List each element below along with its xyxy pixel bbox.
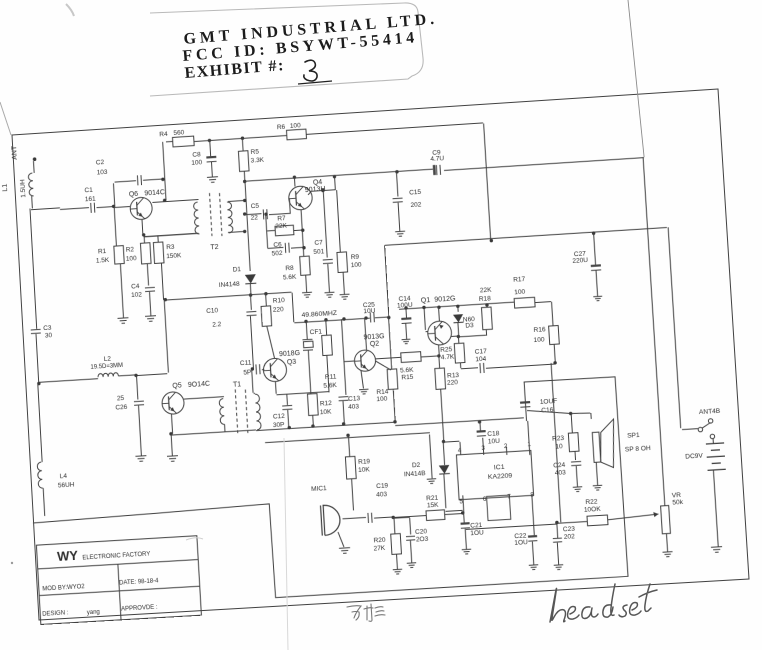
wire xyxy=(143,235,145,243)
capacitor C6 xyxy=(285,243,289,253)
svg-text:R4: R4 xyxy=(159,131,168,139)
wire Q5 emitter xyxy=(171,414,172,434)
svg-text:Q1: Q1 xyxy=(421,297,431,305)
wire xyxy=(31,196,34,208)
wire xyxy=(308,351,311,394)
inductor L4 xyxy=(37,462,43,488)
sticker text FCC ID xyxy=(182,29,419,65)
label ANT xyxy=(11,145,19,160)
svg-text:D1: D1 xyxy=(233,266,242,274)
label R1 1.5K xyxy=(95,248,110,265)
schematic outer border frame xyxy=(12,89,749,620)
svg-text:L4: L4 xyxy=(60,473,68,481)
wire top rail xyxy=(194,136,287,142)
wire xyxy=(312,415,315,426)
svg-text:403: 403 xyxy=(348,403,360,411)
ground xyxy=(402,339,411,344)
label 1.5UH xyxy=(19,179,27,198)
wire xyxy=(267,246,303,250)
resistor R25 xyxy=(454,343,465,363)
label R2 100 xyxy=(125,246,137,263)
capacitor C7 xyxy=(323,259,333,263)
title block text APPROVDE xyxy=(121,604,158,612)
wire xyxy=(60,208,89,210)
wire pin2 xyxy=(505,446,508,454)
wire xyxy=(141,219,144,235)
wire xyxy=(306,321,307,339)
wire xyxy=(249,284,252,295)
label C11 5P xyxy=(240,360,253,377)
label R9 100 xyxy=(350,253,362,269)
svg-text:C10: C10 xyxy=(206,307,219,315)
wire xyxy=(486,364,555,368)
label C2 103 xyxy=(96,159,108,177)
resistor R22 xyxy=(587,515,608,526)
handwritten exhibit number 3 xyxy=(298,60,332,84)
svg-text:C16: C16 xyxy=(541,407,554,415)
capacitor C26 xyxy=(134,401,144,405)
wire xyxy=(438,356,441,368)
label SP1 SP 8 OH xyxy=(624,431,651,454)
label L4 56UH xyxy=(57,473,75,490)
wire xyxy=(114,206,116,246)
capacitor C13 xyxy=(338,397,348,401)
node junction xyxy=(243,180,247,184)
wire Q4 collector xyxy=(308,189,336,194)
wire xyxy=(461,368,478,369)
node junction xyxy=(321,189,325,193)
label C24 403 xyxy=(553,462,566,477)
wire xyxy=(352,479,354,511)
svg-text:C5: C5 xyxy=(251,202,260,210)
speaker SP1 xyxy=(592,419,617,469)
wire xyxy=(384,245,392,369)
wire xyxy=(334,177,337,191)
crystal CF1 xyxy=(302,339,313,350)
node junction xyxy=(404,301,489,312)
wire L2 rail xyxy=(39,373,168,382)
svg-text:10U: 10U xyxy=(363,308,376,316)
wire xyxy=(241,138,244,151)
node junction xyxy=(592,231,596,235)
svg-text:C7: C7 xyxy=(314,239,323,247)
transistor Q2 9013G xyxy=(354,349,376,371)
label R10 220 xyxy=(272,297,286,314)
resistor R21 xyxy=(426,510,445,521)
svg-text:22K: 22K xyxy=(480,287,493,295)
wire Q1 rail xyxy=(399,302,514,309)
resistor R7 xyxy=(275,225,294,236)
wire xyxy=(343,272,344,294)
capacitor C21 xyxy=(460,522,469,528)
wire xyxy=(171,434,172,456)
label R7 22K xyxy=(275,215,288,231)
svg-text:WY: WY xyxy=(57,548,79,564)
svg-text:30: 30 xyxy=(45,332,53,340)
wire to speaker xyxy=(527,407,591,423)
wire xyxy=(712,439,714,444)
svg-text:30P: 30P xyxy=(273,421,285,429)
svg-text:ANT: ANT xyxy=(11,145,19,160)
ground xyxy=(593,485,603,490)
wire Q2 emitter to ground xyxy=(361,370,363,388)
svg-text:3.3K: 3.3K xyxy=(250,157,264,165)
svg-text:C26: C26 xyxy=(115,404,128,412)
capacitor C25 xyxy=(369,312,375,322)
label T2 xyxy=(210,244,219,252)
node junction xyxy=(391,516,395,520)
ground xyxy=(663,552,673,557)
node junction xyxy=(142,233,146,237)
capacitor C24 xyxy=(571,461,581,465)
label R20 27K xyxy=(373,537,387,553)
wire Q6 collector to T2 xyxy=(152,200,198,203)
ground xyxy=(393,569,403,574)
resistor R19 xyxy=(345,456,356,479)
svg-text:1OUF: 1OUF xyxy=(540,398,558,406)
sticker text GMT INDUSTRIAL LTD. xyxy=(183,11,439,48)
ground xyxy=(207,177,218,183)
svg-text:CF1: CF1 xyxy=(310,328,323,336)
ground xyxy=(573,487,583,492)
label R12 10K xyxy=(319,400,333,416)
wire xyxy=(166,140,173,142)
svg-text:R18: R18 xyxy=(479,295,492,303)
pin 4 xyxy=(458,447,462,454)
wire xyxy=(393,389,395,422)
capacitor C12 xyxy=(282,405,292,409)
label Q1 9012G xyxy=(421,296,456,305)
svg-text:150K: 150K xyxy=(166,252,182,260)
svg-text:ANT4B: ANT4B xyxy=(699,408,721,416)
wire xyxy=(265,433,430,443)
svg-text:C13: C13 xyxy=(348,395,361,403)
svg-text:C11: C11 xyxy=(240,360,252,368)
svg-text:R17: R17 xyxy=(513,276,526,284)
wire xyxy=(267,229,275,232)
scan page edge top-left xyxy=(0,102,11,135)
svg-text:22: 22 xyxy=(251,214,259,222)
wire C9 rail xyxy=(245,156,644,184)
wire xyxy=(327,355,329,392)
svg-text:L1: L1 xyxy=(2,183,9,191)
wire xyxy=(365,318,367,350)
wire xyxy=(228,200,245,201)
transistor Q5 9014C xyxy=(161,391,184,414)
label R8 5.6K xyxy=(282,265,297,282)
pencil smudge xyxy=(186,538,203,540)
wire pin3/C18 xyxy=(480,422,484,455)
svg-text:C1: C1 xyxy=(84,187,93,195)
svg-text:50k: 50k xyxy=(672,499,684,507)
wire xyxy=(451,334,486,337)
wire xyxy=(224,424,226,431)
transistor Q3 9018G xyxy=(263,358,287,382)
svg-text:56UH: 56UH xyxy=(58,481,75,489)
capacitor C5 xyxy=(263,209,267,219)
svg-text:C4: C4 xyxy=(131,283,140,291)
ground xyxy=(118,318,129,324)
wire xyxy=(269,213,290,214)
label C18 10U xyxy=(487,430,500,445)
svg-text:C8: C8 xyxy=(192,151,201,159)
svg-text:100: 100 xyxy=(290,122,302,130)
svg-text:100: 100 xyxy=(126,255,138,263)
wire xyxy=(576,466,577,487)
svg-text:EXHIBIT #:: EXHIBIT #: xyxy=(184,57,286,82)
wire xyxy=(38,384,42,462)
wire xyxy=(144,234,197,237)
label T1 xyxy=(233,381,242,389)
ground xyxy=(325,292,335,297)
wire xyxy=(306,275,307,292)
wire xyxy=(139,406,142,456)
wire xyxy=(443,473,462,512)
transformer T1 right winding xyxy=(255,394,261,430)
svg-text:C2: C2 xyxy=(96,159,105,167)
svg-text:100: 100 xyxy=(533,336,545,344)
svg-text:APPROVDE :: APPROVDE : xyxy=(121,604,158,612)
svg-text:C15: C15 xyxy=(409,189,422,197)
svg-text:10K: 10K xyxy=(358,466,371,474)
svg-text:R23: R23 xyxy=(552,435,565,443)
label C27 220U xyxy=(572,250,589,265)
wire xyxy=(713,470,718,547)
label R23 10 xyxy=(552,435,565,451)
label R16 100 xyxy=(533,326,547,344)
svg-text:102: 102 xyxy=(131,291,143,299)
wire xyxy=(535,302,551,303)
ground xyxy=(529,565,539,570)
ground xyxy=(407,563,417,568)
svg-text:27K: 27K xyxy=(373,545,386,553)
wire xyxy=(344,360,355,363)
transistor Q6 9014C xyxy=(130,197,153,220)
svg-text:10OK: 10OK xyxy=(584,506,602,514)
wire xyxy=(337,190,341,252)
label R22 100K xyxy=(583,498,601,514)
label C1 161 xyxy=(84,186,96,203)
resistor R20 xyxy=(391,534,402,555)
wire xyxy=(157,235,159,242)
label R19 10K xyxy=(357,458,371,474)
node junction xyxy=(241,199,248,234)
node switch contact xyxy=(698,427,703,432)
node junction xyxy=(395,170,399,174)
wire xyxy=(465,529,466,550)
wire R5 junction down to D1 xyxy=(245,181,250,271)
wire 49.860MHZ rail xyxy=(294,317,388,323)
svg-text:1OU: 1OU xyxy=(470,529,484,537)
svg-text:MOD BY:WYO2: MOD BY:WYO2 xyxy=(42,584,85,593)
svg-text:502: 502 xyxy=(272,250,284,258)
label ANT4B xyxy=(699,408,721,416)
capacitor C16 xyxy=(520,401,530,407)
capacitor C22 xyxy=(528,535,537,541)
wire xyxy=(147,264,148,286)
node junction xyxy=(569,412,573,416)
svg-text:R11: R11 xyxy=(325,373,337,381)
node junction xyxy=(37,382,41,386)
node switch contact 2 xyxy=(710,434,715,439)
scan overlay page right edge xyxy=(628,0,644,157)
svg-text:100: 100 xyxy=(351,262,363,270)
wire xyxy=(556,523,559,538)
switch lever xyxy=(702,423,711,428)
svg-text:DATE: 98-18-4: DATE: 98-18-4 xyxy=(119,578,159,586)
svg-text:KA2209: KA2209 xyxy=(488,472,513,481)
title block text DATE xyxy=(119,578,159,586)
wire xyxy=(596,462,597,486)
wire pin5 xyxy=(463,495,464,512)
wire R10 to Q3 xyxy=(267,326,275,359)
capacitor C9 xyxy=(433,165,442,176)
wire xyxy=(277,392,329,395)
svg-text:ELECTRONIC FACTORY: ELECTRONIC FACTORY xyxy=(82,551,150,561)
label R25 47K xyxy=(440,346,455,362)
label C10 2.2 xyxy=(206,307,222,329)
label C19 403 xyxy=(375,482,389,498)
svg-text:R15: R15 xyxy=(401,373,414,381)
capacitor C19 xyxy=(368,513,372,523)
sticker text EXHIBIT # xyxy=(184,57,286,82)
wire xyxy=(120,264,123,318)
node junction xyxy=(490,239,494,243)
resistor R14 xyxy=(387,369,398,390)
resistor R10 xyxy=(261,306,272,327)
label IC1 KA2209 xyxy=(487,463,513,481)
wire xyxy=(393,517,396,534)
label C8 100 xyxy=(191,151,203,167)
svg-text:104: 104 xyxy=(475,356,487,364)
node junction xyxy=(457,335,461,339)
label C14 100U xyxy=(396,295,413,310)
wire xyxy=(341,319,345,395)
ground xyxy=(167,456,178,462)
wire xyxy=(209,140,212,156)
label D1 IN4148 xyxy=(218,266,243,289)
wire wiper arrow xyxy=(607,512,658,520)
pin 1 xyxy=(527,441,531,448)
pin 7 xyxy=(507,493,511,500)
svg-text:R2: R2 xyxy=(126,246,135,254)
pin 2 xyxy=(504,443,508,450)
capacitor C2 xyxy=(137,175,141,185)
svg-text:R22: R22 xyxy=(585,498,598,506)
wire xyxy=(375,360,391,371)
svg-text:9018G: 9018G xyxy=(279,350,300,358)
jumper block pins 6-7 xyxy=(487,495,511,520)
svg-text:4.7K: 4.7K xyxy=(441,354,456,362)
transformer T2 left winding xyxy=(193,202,199,234)
resistor R16 xyxy=(549,326,560,345)
svg-text:25: 25 xyxy=(117,395,125,403)
capacitor C11 xyxy=(256,364,260,374)
svg-text:1OU: 1OU xyxy=(514,539,528,547)
wire xyxy=(443,442,444,465)
resistor R6 xyxy=(286,129,306,140)
label R14 100 xyxy=(376,388,390,403)
wire xyxy=(161,263,163,300)
wire xyxy=(253,393,255,394)
label C9 4.7U xyxy=(430,149,445,163)
svg-text:DESIGN :: DESIGN : xyxy=(42,610,69,618)
node junction xyxy=(287,414,481,435)
svg-text:IN414B: IN414B xyxy=(404,470,426,478)
resistor R18 xyxy=(481,307,492,330)
wire xyxy=(31,208,60,210)
label DC9V xyxy=(685,452,704,460)
ground xyxy=(339,548,350,554)
wire xyxy=(457,306,459,312)
diode D1 1N4148 xyxy=(245,274,256,284)
node junction xyxy=(161,178,165,182)
node junction xyxy=(442,440,446,444)
node junction xyxy=(169,432,173,436)
wire xyxy=(466,522,587,530)
wire xyxy=(292,293,294,323)
node junction xyxy=(112,205,116,209)
svg-text:1.5K: 1.5K xyxy=(96,257,110,265)
label Q5 9014C xyxy=(172,381,210,391)
wire xyxy=(43,488,45,516)
svg-text:19.5D=3MM: 19.5D=3MM xyxy=(90,363,123,371)
wire xyxy=(405,324,408,340)
ground xyxy=(395,231,405,236)
wire xyxy=(293,177,296,186)
svg-text:49.860MHZ: 49.860MHZ xyxy=(301,310,337,319)
svg-text:202: 202 xyxy=(410,201,422,209)
wire xyxy=(396,172,397,197)
svg-text:100: 100 xyxy=(191,159,203,167)
wire xyxy=(210,162,213,177)
battery DC9V xyxy=(706,443,726,470)
resistor R3 xyxy=(153,242,164,263)
transformer T2 right winding xyxy=(227,202,233,233)
svg-text:161: 161 xyxy=(85,196,97,204)
wire xyxy=(666,534,667,552)
wire xyxy=(137,375,138,399)
wire xyxy=(163,142,166,200)
resistor R4 xyxy=(172,136,194,147)
svg-text:SP1: SP1 xyxy=(627,432,640,440)
svg-text:9014C: 9014C xyxy=(144,189,165,197)
wire xyxy=(250,316,253,369)
label CF1 xyxy=(310,328,323,336)
svg-text:220: 220 xyxy=(273,306,285,314)
label C6 502 xyxy=(271,241,283,257)
ground xyxy=(711,547,722,553)
wire xyxy=(144,233,199,236)
wire xyxy=(410,540,411,563)
label R6 100 xyxy=(277,122,302,131)
resistor R15 xyxy=(401,352,421,363)
label C20 203 xyxy=(415,528,429,543)
resistor R11 xyxy=(322,335,333,356)
label R5 3.3K xyxy=(250,148,265,164)
node junction xyxy=(293,175,297,179)
transistor Q4 9013H xyxy=(288,186,313,211)
label C13 403 xyxy=(348,395,362,411)
svg-text:R20: R20 xyxy=(373,537,386,545)
transformer T2 core (dashed) xyxy=(209,192,221,236)
capacitor C15 xyxy=(393,198,403,202)
label 22K R18 xyxy=(478,287,493,303)
wire xyxy=(343,401,344,424)
label C25 10U xyxy=(363,301,376,315)
wire xyxy=(424,307,428,331)
node junction xyxy=(164,292,268,302)
